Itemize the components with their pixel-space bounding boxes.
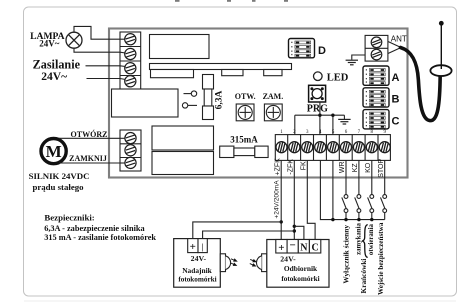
node: bus junction KO — [370, 218, 373, 221]
strip screw 8 — [366, 142, 377, 153]
svg-text:otwierania: otwierania — [368, 224, 375, 256]
TB1 screw 1 — [125, 34, 136, 45]
strip screw 6 — [341, 142, 352, 153]
test point TP2 — [182, 103, 197, 108]
svg-text:-ZFK: -ZFK — [287, 159, 294, 175]
TB2 screw 2 — [125, 145, 136, 156]
wire terminal2 to receiver - — [293, 160, 295, 239]
svg-text:ANT: ANT — [391, 34, 407, 43]
svg-text:OTWÓRZ: OTWÓRZ — [71, 129, 108, 139]
svg-text:prądu stałego: prądu stałego — [32, 182, 84, 192]
ground (antenna shield) — [346, 60, 358, 65]
TB1 screw 2 — [125, 48, 136, 59]
svg-text:C: C — [311, 243, 318, 254]
wire branch to receiver N — [294, 226, 304, 239]
switch S4 safety (STOP) — [381, 160, 387, 219]
svg-text:SILNIK 24VDC: SILNIK 24VDC — [29, 171, 90, 181]
wire Zasilanie to terminal 4 — [87, 78, 121, 80]
lamp L1 symbol — [66, 32, 82, 48]
ground (logic common) — [338, 119, 350, 124]
terminal strip numbers 1-9 — [280, 130, 386, 135]
DIP switch D — [289, 39, 315, 58]
antenna rod — [440, 24, 442, 70]
switch S2 limit close (KZ) — [355, 160, 361, 219]
coax cable to antenna — [401, 48, 441, 121]
button PRG — [309, 85, 326, 102]
svg-text:A: A — [392, 72, 400, 84]
switch S3 limit open (KO) — [368, 160, 374, 219]
svg-text:+: + — [190, 241, 196, 253]
terminal strip TS1 — [275, 135, 390, 161]
svg-text:Wejście bezpieczeństwa: Wejście bezpieczeństwa — [377, 222, 385, 295]
wire ZAMKNIJ motor to terminal — [59, 162, 120, 164]
connector tab mid — [222, 70, 243, 76]
svg-text:KZ: KZ — [352, 163, 359, 173]
svg-text:fotokomórki: fotokomórki — [178, 275, 216, 283]
wire lamp top to terminal 1 — [74, 26, 120, 39]
terminal block TB1 (lamp+power) — [120, 32, 141, 90]
TB2 screw 1 — [125, 133, 136, 144]
svg-text:315mA: 315mA — [230, 135, 258, 145]
svg-text:Odbiornik: Odbiornik — [284, 264, 318, 273]
wire ANT to ground — [352, 55, 365, 60]
wire terminal3 FK to receiver C — [307, 160, 315, 239]
antenna tip dot — [439, 21, 444, 26]
svg-text:+ZFK: +ZFK — [275, 158, 282, 176]
transmitter box (Nadajnik fotokomorki) — [174, 239, 221, 288]
node: bus junction KZ — [357, 218, 360, 221]
svg-text:M: M — [46, 142, 62, 161]
receiver box (Odbiornik fotokomorki) — [267, 240, 329, 288]
node: bus junction 5 — [331, 218, 334, 221]
wire stubs into TB1 — [120, 39, 126, 79]
strip screw 3 — [302, 142, 313, 153]
svg-text:24V~: 24V~ — [41, 70, 67, 83]
component block left — [112, 89, 179, 117]
svg-text:Krańcówki: Krańcówki — [359, 259, 368, 294]
controller board outline — [109, 29, 408, 178]
rail junction node — [318, 114, 321, 117]
DIP switch A — [363, 66, 389, 85]
strip clamp line — [275, 146, 390, 148]
node: transmitter return join — [293, 229, 296, 232]
connector tab left — [151, 70, 194, 78]
svg-text:WR: WR — [339, 161, 346, 173]
fuse F1 6,3A — [203, 75, 214, 120]
connector tab right — [264, 70, 282, 76]
svg-text:STOP: STOP — [378, 159, 385, 178]
wire terminal5 to common bus — [332, 160, 334, 219]
svg-text:OTW.: OTW. — [235, 92, 256, 101]
svg-text:Wyłącznik ścienny: Wyłącznik ścienny — [342, 225, 351, 284]
rail junction node — [331, 114, 334, 117]
TB1 screw 4 — [125, 76, 136, 87]
strip screw 7 — [353, 142, 364, 153]
svg-text:ZAM.: ZAM. — [263, 92, 284, 101]
svg-text:+24V/200mA: +24V/200mA — [274, 180, 281, 219]
svg-text:6,3A - zabezpieczenie silnika: 6,3A - zabezpieczenie silnika — [44, 224, 145, 233]
LED indicator — [314, 72, 323, 81]
wire Zasilanie to terminal 3 — [86, 65, 121, 67]
strip screw 9 — [379, 142, 390, 153]
wire transmitter return — [203, 231, 295, 239]
svg-text:Nadajnik: Nadajnik — [182, 266, 212, 275]
svg-text:KO: KO — [365, 162, 372, 173]
node: bus junction WR — [344, 218, 347, 221]
switch S1 wall button (WR) — [342, 160, 348, 219]
transmitter terminals + | — [188, 239, 208, 253]
wire OTWORZ motor to terminal — [59, 137, 120, 139]
wire transmitter + supply — [193, 222, 281, 239]
svg-text:fotokomórki: fotokomórki — [281, 275, 319, 283]
strip screw 1 — [276, 142, 287, 153]
receiver terminals + - N C — [276, 240, 321, 254]
svg-text:D: D — [318, 45, 326, 57]
TB1 screw 3 — [125, 63, 136, 74]
svg-text:|: | — [202, 242, 204, 251]
receiver beam arrows — [249, 258, 256, 267]
svg-text:LED: LED — [327, 73, 349, 84]
svg-text:FK: FK — [300, 161, 307, 170]
ground rail above strip — [295, 102, 345, 135]
svg-text:315 mA - zasilanie fotokomórek: 315 mA - zasilanie fotokomórek — [44, 233, 156, 242]
svg-text:6,3A: 6,3A — [215, 91, 225, 110]
strip screw 2 — [289, 142, 300, 153]
ANT terminal block — [365, 35, 388, 61]
svg-text:24V-: 24V- — [191, 254, 207, 263]
transmitter photodiode — [220, 254, 230, 272]
TB2 screw 3 — [125, 157, 136, 168]
wire stubs into TB2 — [120, 138, 126, 163]
relay K2 — [152, 152, 214, 175]
brace Krancowki — [362, 225, 368, 258]
svg-text:ZAMKNIJ: ZAMKNIJ — [69, 154, 107, 163]
connector bar — [150, 64, 292, 70]
svg-text:Bezpieczniki:: Bezpieczniki: — [44, 212, 94, 222]
test point TP1 — [184, 91, 197, 96]
svg-text:C: C — [392, 116, 400, 128]
terminal block TB2 (motor) — [120, 130, 141, 171]
DIP switch C — [363, 110, 389, 129]
svg-text:+: + — [278, 242, 284, 254]
strip screw 4 — [315, 142, 326, 153]
svg-text:−: − — [290, 239, 296, 251]
antenna insulator ellipse — [430, 65, 451, 76]
wire terminal1 to receiver + — [280, 160, 282, 239]
wire ANT block to coax (two leads) — [388, 42, 401, 54]
receiver photodiode — [256, 254, 266, 272]
fuse F2 315mA — [220, 146, 268, 157]
svg-text:24V~: 24V~ — [39, 39, 59, 49]
DIP switch B — [363, 88, 389, 107]
node: transmitter supply join — [280, 220, 283, 223]
transmitter beam arrows — [230, 258, 237, 267]
wire terminal4 to common bus — [320, 160, 384, 219]
svg-text:B: B — [392, 94, 400, 106]
transformer block — [150, 35, 210, 59]
svg-text:24V-: 24V- — [280, 254, 296, 263]
wire lamp bottom to terminal 2 — [74, 48, 120, 52]
node: N branch join — [293, 225, 296, 228]
relay K1 — [152, 126, 214, 150]
svg-text:zamykania: zamykania — [356, 223, 363, 255]
motor M symbol — [41, 139, 66, 164]
svg-text:PRG: PRG — [307, 104, 328, 115]
strip screw 5 — [328, 142, 339, 153]
cropped title text descenders at top edge — [175, 0, 288, 2]
svg-text:N: N — [300, 243, 308, 254]
faint page rule at bottom — [24, 300, 456, 302]
